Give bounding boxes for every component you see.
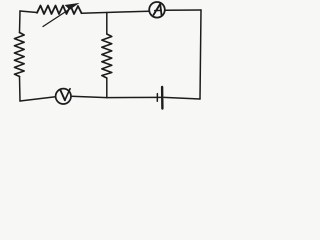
wire middle branch bottom stub <box>106 78 108 98</box>
resistor R2 zigzag (middle) <box>102 34 112 78</box>
wire bottom right segment <box>164 97 200 99</box>
wire left side top stub <box>19 11 22 33</box>
wire middle junction to voltmeter <box>71 96 107 97</box>
rheostat arrow shaft <box>43 8 72 27</box>
voltmeter V circle <box>56 89 71 104</box>
wire top right segment <box>166 9 202 11</box>
wire middle branch top stub <box>106 13 108 35</box>
ammeter label A <box>154 4 162 15</box>
resistor R1 zigzag (left) <box>14 33 24 77</box>
wire top middle segment <box>82 11 149 13</box>
wire left side bottom stub <box>19 77 22 102</box>
background paper <box>0 0 209 115</box>
battery cell short plate <box>156 94 158 102</box>
wire top-left segment <box>20 11 37 13</box>
voltmeter label V <box>60 89 70 101</box>
ammeter A circle <box>149 2 165 18</box>
wire voltmeter to left corner <box>20 97 56 101</box>
wire battery to middle junction <box>107 96 161 98</box>
rheostat arrowhead <box>65 3 80 10</box>
battery cell long plate <box>161 87 164 109</box>
wire right side <box>200 10 201 99</box>
rheostat Rh zigzag <box>37 6 82 15</box>
